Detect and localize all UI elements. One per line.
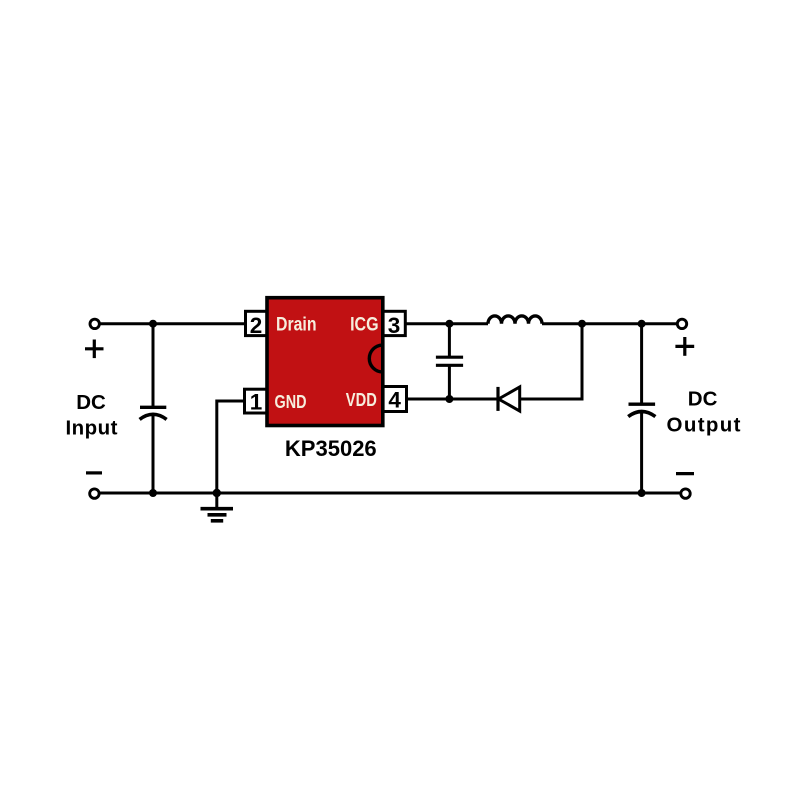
wire pin4 to diode: [406, 398, 498, 401]
svg-text:Output: Output: [667, 413, 741, 436]
IC notch: [369, 345, 383, 372]
wire diode to riser: [520, 398, 584, 401]
capacitor C-mid top plate: [436, 356, 463, 359]
wire mid capacitor top branch: [448, 324, 451, 358]
diode D cathode bar: [496, 387, 499, 411]
wire mid capacitor bottom branch: [448, 365, 451, 399]
capacitor C-in curved plate: [140, 414, 167, 419]
capacitor C-out top plate: [629, 403, 656, 406]
svg-text:1: 1: [250, 389, 263, 414]
junction node input cap bottom: [149, 489, 157, 497]
svg-text:GND: GND: [275, 391, 307, 412]
pin 3 box: [383, 311, 406, 335]
wire riser to top rail: [581, 324, 584, 401]
diode D triangle: [499, 387, 520, 411]
svg-text:3: 3: [388, 313, 401, 338]
pin 2 box: [246, 311, 268, 335]
wire input capacitor top branch: [152, 324, 155, 408]
wire pin3 to inductor: [405, 322, 488, 325]
terminal output +: [677, 319, 686, 328]
plus sign output: [675, 337, 694, 356]
svg-text:DC: DC: [688, 387, 718, 410]
capacitor C-in top plate: [140, 406, 166, 409]
terminal input -: [90, 489, 99, 498]
junction node output cap bottom: [638, 489, 646, 497]
svg-text:Input: Input: [66, 416, 118, 439]
terminal output -: [681, 489, 690, 498]
label DC Output: [667, 387, 741, 436]
minus sign input: [86, 471, 102, 474]
wire bottom rail: [94, 492, 685, 495]
wire pin1 to ground: [217, 401, 245, 507]
svg-text:Drain: Drain: [276, 314, 317, 336]
ground: [201, 509, 234, 521]
wire output capacitor top branch: [640, 324, 643, 405]
junction node input cap top: [149, 320, 157, 328]
svg-text:2: 2: [250, 313, 263, 338]
junction node riser top: [578, 320, 586, 328]
junction node mid cap bottom: [445, 395, 453, 403]
pin 4 box: [383, 387, 407, 412]
junction node output cap top: [638, 320, 646, 328]
svg-text:DC: DC: [76, 391, 106, 414]
pin 1 box: [245, 389, 268, 413]
wire inductor to output terminal: [542, 322, 682, 325]
plus sign input: [85, 340, 104, 359]
svg-text:4: 4: [388, 387, 401, 412]
label DC Input: [66, 391, 118, 439]
minus sign output: [676, 472, 694, 475]
inductor L: [488, 316, 542, 324]
svg-text:VDD: VDD: [346, 389, 377, 410]
junction node ground: [213, 489, 221, 497]
junction node mid cap top: [445, 320, 453, 328]
terminal input +: [90, 319, 99, 328]
wire input capacitor bottom branch: [152, 414, 155, 493]
wire output capacitor bottom branch: [640, 411, 643, 493]
svg-text:ICG: ICG: [350, 314, 379, 336]
wire top input rail: [95, 322, 246, 325]
capacitor C-mid bottom plate: [436, 364, 463, 367]
capacitor C-out curved plate: [628, 412, 655, 417]
IC U1 body KP35026: [267, 298, 383, 426]
svg-text:KP35026: KP35026: [285, 436, 377, 461]
